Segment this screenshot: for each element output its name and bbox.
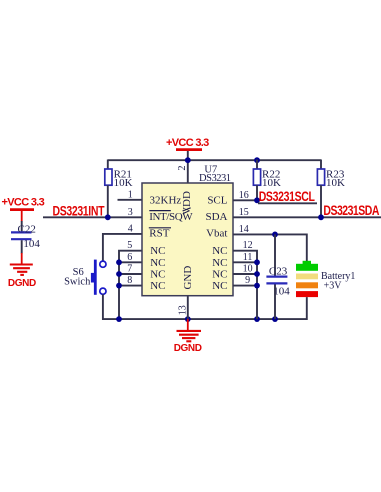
svg-text:NC: NC [150, 257, 165, 269]
node junction R23/pin15 [318, 214, 324, 220]
wire R23 lower lead [320, 185, 322, 217]
node junction C23/pin14 [272, 232, 278, 238]
node junction R22/pin16 [254, 197, 260, 203]
net label DS3231SCL [259, 189, 316, 205]
svg-text:5: 5 [127, 240, 132, 251]
wire pin6 [119, 261, 142, 263]
svg-text:2: 2 [177, 166, 188, 171]
wire pin1 stub [118, 199, 143, 201]
svg-text:11: 11 [243, 252, 253, 263]
svg-text:DGND: DGND [174, 343, 202, 354]
net label DS3231INT [53, 203, 105, 219]
svg-text:10K: 10K [326, 177, 345, 189]
wire battery bottom lead [306, 297, 308, 320]
svg-text:Vbat: Vbat [206, 228, 227, 240]
svg-text:+VCC 3.3: +VCC 3.3 [166, 137, 209, 149]
power +VCC 3.3 left symbol [2, 197, 45, 222]
svg-text:12: 12 [243, 240, 253, 251]
node junction C23 / rail [272, 316, 278, 322]
svg-text:7: 7 [127, 264, 132, 275]
node junction right bus / rail [254, 316, 260, 322]
wire SCL net stub [258, 202, 317, 204]
wire pin3 DS3231INT net [43, 216, 142, 218]
svg-text:9: 9 [245, 275, 250, 286]
wire pin5 + left bus [119, 251, 142, 319]
wire R23 upper lead [320, 160, 322, 170]
svg-text:14: 14 [239, 224, 249, 235]
node junction R21/pin3 [105, 214, 111, 220]
svg-text:15: 15 [239, 207, 249, 218]
switch S6 [64, 260, 106, 295]
wire pin8 [119, 285, 142, 287]
node junction bus pin11 [254, 259, 260, 265]
wire C23 lower lead [274, 284, 276, 319]
svg-text:10K: 10K [262, 177, 281, 189]
svg-text:4: 4 [128, 223, 133, 234]
wire top VCC rail [108, 159, 321, 161]
node junction bus pin7 [116, 271, 122, 277]
svg-text:13: 13 [178, 305, 189, 315]
svg-text:+VCC 3.3: +VCC 3.3 [2, 197, 45, 209]
wire pin4 to switch [103, 234, 142, 261]
wire C22 lower lead [21, 240, 23, 253]
node junction bus pin9 [254, 283, 260, 289]
resistor R23 [317, 168, 345, 188]
svg-text:104: 104 [23, 238, 40, 250]
node junction pin13 / rail [185, 316, 191, 322]
wire C22 upper lead [21, 221, 23, 232]
svg-text:NC: NC [212, 269, 227, 281]
wire pin9 [233, 285, 257, 287]
wire R22 upper lead [256, 160, 258, 170]
svg-text:DS3231SDA: DS3231SDA [323, 203, 379, 219]
ground DGND bottom [174, 319, 202, 354]
svg-text:DS3231SCL: DS3231SCL [259, 189, 316, 205]
capacitor C23 [266, 266, 290, 298]
svg-text:32KHz: 32KHz [150, 194, 182, 206]
svg-text:DGND: DGND [8, 278, 36, 289]
wire bottom ground rail [103, 318, 307, 320]
wire R21 upper lead [107, 160, 109, 170]
svg-text:NC: NC [212, 257, 227, 269]
svg-text:RST: RST [149, 228, 169, 240]
svg-text:NC: NC [212, 245, 227, 257]
node junction bus pin10 [254, 271, 260, 277]
svg-text:DS3231INT: DS3231INT [53, 203, 105, 219]
capacitor C22 [11, 224, 40, 251]
svg-text:VDD: VDD [181, 191, 193, 215]
svg-text:GND: GND [182, 266, 194, 290]
svg-text:NC: NC [212, 280, 227, 292]
power +VCC 3.3 top symbol [166, 137, 209, 150]
svg-text:16: 16 [239, 190, 249, 201]
wire pin12 + right bus [233, 251, 257, 319]
svg-text:NC: NC [150, 269, 165, 281]
svg-text:10K: 10K [114, 177, 133, 189]
wire switch bottom lead [102, 294, 104, 320]
node junction bus pin8 [116, 283, 122, 289]
svg-text:SDA: SDA [205, 211, 227, 223]
IC U7 DS3231 body [142, 165, 233, 296]
svg-text:3: 3 [128, 207, 133, 218]
svg-text:+3V: +3V [324, 281, 343, 292]
svg-text:8: 8 [127, 275, 132, 286]
wire pin13 [187, 296, 189, 320]
wire R21 lower lead [107, 185, 109, 217]
ground DGND left [8, 253, 36, 289]
node junction R22 top on rail [254, 157, 260, 163]
node junction VCC/pin2 on rail [185, 157, 191, 163]
wire C23 upper lead [274, 234, 276, 275]
svg-text:C22: C22 [18, 224, 36, 236]
wire pin2 VDD vertical [187, 151, 189, 184]
net label DS3231SDA [323, 203, 379, 219]
resistor R22 [253, 168, 281, 188]
node junction left bus / rail [116, 316, 122, 322]
svg-text:6: 6 [127, 252, 132, 263]
wire pin7 [119, 273, 142, 275]
svg-text:10: 10 [243, 264, 253, 275]
svg-text:SCL: SCL [207, 194, 227, 206]
wire pin14 to battery [233, 234, 307, 261]
pin name INT/SQW with overline [149, 208, 193, 223]
node junction bus pin6 [116, 259, 122, 265]
pin name RST with overline [149, 228, 171, 240]
wire pin15 DS3231SDA net [233, 216, 381, 218]
resistor R21 [105, 168, 133, 188]
svg-text:Swich: Swich [64, 276, 91, 287]
svg-text:NC: NC [150, 280, 165, 292]
wire pin11 [233, 261, 257, 263]
svg-text:1: 1 [128, 189, 133, 200]
svg-text:NC: NC [150, 245, 165, 257]
svg-text:DS3231: DS3231 [199, 173, 231, 184]
battery Battery1 [296, 261, 355, 297]
wire R22 lower lead [256, 185, 258, 200]
wire pin16 [233, 199, 258, 201]
svg-text:C23: C23 [269, 266, 288, 278]
wire pin10 [233, 273, 257, 275]
